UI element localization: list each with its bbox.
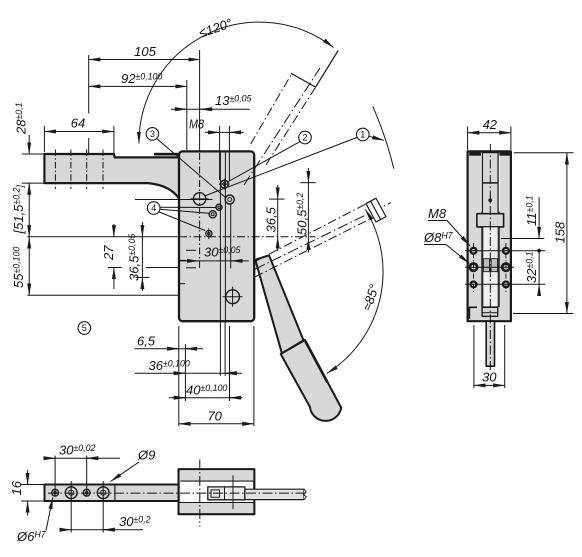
hole axis extension (30 dim right) bbox=[230, 204, 232, 269]
bottom centerline vertical bbox=[199, 460, 201, 527]
side body bbox=[468, 151, 511, 321]
dim line 13 bbox=[171, 108, 250, 110]
svg-text:M8: M8 bbox=[428, 206, 447, 221]
dim line 40 bbox=[169, 397, 242, 399]
svg-text:28±0,1: 28±0,1 bbox=[14, 102, 29, 135]
hole axis vertical (M8 hole no.3) bbox=[199, 50, 201, 151]
svg-text:3: 3 bbox=[150, 129, 155, 139]
svg-text:2: 2 bbox=[302, 133, 307, 143]
svg-text:55±0,100: 55±0,100 bbox=[11, 247, 26, 288]
swing arc 120 deg bbox=[139, 22, 334, 143]
clamp screw axis vertical bbox=[232, 475, 234, 509]
side dim 30 bbox=[474, 325, 505, 388]
hole 2 (top small stud hole) bbox=[219, 179, 230, 190]
dim line 92 bbox=[89, 85, 187, 87]
balloon 2 bbox=[299, 131, 312, 144]
svg-text:1: 1 bbox=[360, 130, 365, 140]
svg-text:4: 4 bbox=[151, 203, 156, 213]
svg-text:32±0,1: 32±0,1 bbox=[524, 251, 539, 283]
svg-text:70: 70 bbox=[207, 409, 222, 424]
ext line 92/13 bbox=[186, 80, 188, 150]
reference line B (centerline through bottom hole) bbox=[27, 294, 178, 296]
bottom dim 16 bbox=[21, 470, 46, 516]
dim 50.5 right of body bbox=[300, 182, 316, 184]
hole A (stud hole at 30 offset) bbox=[225, 195, 234, 204]
phantom lever position right (dash-dot) bbox=[255, 203, 391, 277]
bottom leader O6H7 bbox=[46, 498, 53, 531]
dim 30+-0.05 horizontal bbox=[180, 260, 249, 262]
swing arc 85 deg bbox=[327, 210, 383, 374]
balloon 4 bbox=[147, 202, 160, 215]
svg-text:30±0,2: 30±0,2 bbox=[119, 514, 151, 529]
balloon 1 bbox=[357, 128, 370, 141]
svg-text:64: 64 bbox=[71, 116, 85, 131]
svg-text:Ø9: Ø9 bbox=[137, 448, 155, 463]
leader balloon 1 to arc bbox=[369, 136, 384, 140]
side leader M8 bbox=[428, 221, 470, 247]
ext lines M8 dim bbox=[219, 126, 221, 180]
side rod below bbox=[486, 321, 494, 366]
side screw column axes bbox=[474, 243, 506, 292]
hole 5 (pivot hole bottom of body) bbox=[223, 287, 243, 307]
side channel (white) bbox=[481, 153, 500, 212]
side bottom-left notch bbox=[469, 307, 477, 318]
side bottom block bbox=[482, 307, 498, 316]
balloon 5 bbox=[78, 322, 91, 335]
svg-text:≈85°: ≈85° bbox=[359, 282, 382, 312]
bottom dim 30+-0.02 bbox=[44, 456, 120, 497]
dim line 105 bbox=[89, 59, 200, 61]
svg-text:13±0,05: 13±0,05 bbox=[215, 93, 252, 108]
bottom dim 30+-0.2 bbox=[60, 481, 144, 533]
phantom lever position up (dash-dot outline) bbox=[244, 68, 320, 185]
grip edge highlight line bbox=[306, 342, 328, 383]
dim line 6.5 bbox=[135, 348, 203, 350]
svg-text:Ø6H7: Ø6H7 bbox=[16, 529, 47, 544]
dim line 64 bbox=[44, 131, 114, 133]
bottom block bbox=[179, 469, 255, 514]
dim 36.5 left vertical bbox=[141, 222, 143, 237]
side dim 11 bbox=[538, 197, 540, 239]
body (vertical block) bbox=[179, 151, 254, 321]
phantom knob (lever end, solid outline) bbox=[366, 198, 386, 222]
hole B (small hole) bbox=[216, 204, 222, 210]
serrated jaw strip (black) on arm bbox=[154, 153, 180, 156]
position-1 arc (short arc right) bbox=[373, 106, 394, 168]
rod to right bbox=[245, 489, 304, 499]
svg-text:≤120°: ≤120° bbox=[197, 15, 234, 40]
side inner slot walls bbox=[481, 152, 483, 307]
side leader O8H7 bbox=[424, 245, 469, 264]
ext line left of arm top dims bbox=[88, 55, 90, 114]
hole3 centerline horizontal bbox=[135, 199, 213, 201]
side screws (6 set screws) bbox=[471, 248, 509, 287]
svg-text:42: 42 bbox=[483, 117, 498, 132]
dim line M8 bbox=[205, 131, 244, 133]
dim 51.5 vertical bbox=[28, 183, 30, 237]
svg-text:30: 30 bbox=[482, 370, 497, 385]
side dim 158 bbox=[513, 153, 573, 314]
phantom lever cap (solid) bbox=[291, 73, 316, 87]
side top black corners bbox=[469, 151, 481, 155]
reference line A (centerline through lower small hole) bbox=[27, 236, 177, 238]
svg-text:40±0,100: 40±0,100 bbox=[186, 383, 227, 398]
dim line 70 bbox=[179, 423, 254, 425]
svg-text:105: 105 bbox=[134, 44, 156, 59]
arm (horizontal clamp arm, left) bbox=[44, 154, 180, 200]
leader balloon 3 bbox=[157, 139, 226, 198]
dim 36.5 right of body bbox=[269, 198, 285, 200]
svg-text:M8: M8 bbox=[189, 117, 205, 132]
bottom leader O9 bbox=[111, 462, 140, 482]
side screw row centerlines bbox=[465, 239, 545, 285]
svg-text:36,5±0,05: 36,5±0,05 bbox=[127, 234, 142, 281]
dim 27 vertical bbox=[113, 224, 115, 237]
hidden hole dashes at body left edge bbox=[108, 250, 196, 283]
bar step line bbox=[114, 485, 116, 501]
rod break end bbox=[303, 489, 306, 499]
phantom lever tip edge (solid) bbox=[316, 51, 339, 88]
lever bar (steel shaft of clamping lever) bbox=[255, 255, 303, 353]
svg-text:[51,5±0,2]: [51,5±0,2] bbox=[11, 185, 26, 235]
leaders balloon 4 bbox=[158, 207, 215, 230]
hole C (small hole) bbox=[209, 211, 216, 218]
hole 3 (M8 tapped hole, large circle) bbox=[191, 193, 209, 205]
svg-text:30±0,02: 30±0,02 bbox=[59, 443, 96, 458]
side lower channel bbox=[483, 227, 498, 307]
dim 55 vertical bbox=[28, 237, 30, 295]
screw dot bbox=[488, 198, 492, 202]
svg-text:5: 5 bbox=[82, 323, 87, 333]
slot line left bbox=[219, 152, 221, 321]
side dim 32 bbox=[537, 249, 541, 293]
side clamp block bbox=[477, 214, 504, 227]
side vertical centerline bbox=[489, 144, 491, 372]
bolt in block bbox=[208, 487, 245, 500]
side dim 42 bbox=[468, 127, 511, 151]
side screw strip bbox=[482, 153, 498, 214]
bottom centerline horizontal bbox=[48, 492, 306, 494]
svg-text:6,5: 6,5 bbox=[137, 334, 156, 349]
side nut blocks bbox=[483, 259, 489, 272]
slot line right bbox=[224, 152, 226, 321]
svg-text:Ø8H7: Ø8H7 bbox=[423, 230, 454, 245]
dim line 36 bbox=[135, 372, 242, 374]
leader balloon 1 to hole 3 bbox=[205, 138, 357, 197]
svg-text:11±0,1: 11±0,1 bbox=[524, 195, 539, 226]
dim line 28 vertical bbox=[28, 135, 30, 154]
hole D (small hole on line A) bbox=[206, 228, 212, 239]
svg-text:36,5: 36,5 bbox=[264, 206, 279, 232]
arm hole axes (dash-dot verticals) bbox=[55, 150, 103, 190]
svg-text:158: 158 bbox=[553, 221, 568, 243]
ext lines below body bbox=[178, 326, 180, 426]
balloon 3 bbox=[146, 128, 159, 141]
svg-text:16: 16 bbox=[9, 480, 24, 495]
left stack ticks 28 dim bbox=[22, 153, 45, 155]
svg-text:92±0,100: 92±0,100 bbox=[121, 71, 162, 86]
svg-text:27: 27 bbox=[101, 245, 116, 261]
bottom arm bar bbox=[45, 485, 196, 502]
bottom holes bbox=[52, 487, 109, 499]
svg-text:50,5±0,2: 50,5±0,2 bbox=[295, 193, 310, 235]
lever grip sleeve bbox=[281, 340, 342, 421]
screw strip divider line bbox=[482, 182, 498, 184]
leader balloon 2 bbox=[228, 141, 301, 182]
ext lines 64 bbox=[43, 126, 45, 152]
svg-text:36±0,100: 36±0,100 bbox=[149, 358, 190, 373]
